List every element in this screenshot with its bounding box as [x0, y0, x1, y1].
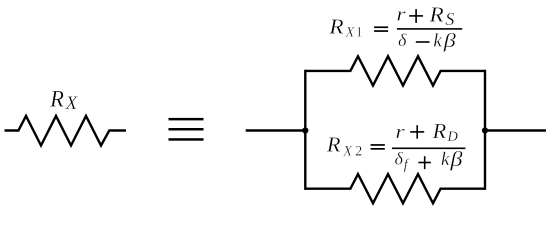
wire: left lead into node A [246, 129, 306, 131]
svg-text:δ: δ [395, 149, 404, 169]
svg-text:X: X [345, 25, 356, 41]
svg-text:r: r [395, 122, 405, 143]
svg-text:X: X [65, 93, 79, 114]
resistor RX [5, 116, 127, 146]
svg-text:β: β [443, 30, 457, 52]
svg-text:R: R [428, 2, 443, 26]
wire: left vertical branch between node A and parallel branches [304, 71, 306, 189]
svg-text:S: S [445, 9, 454, 29]
svg-text:R: R [432, 119, 447, 143]
value label RX1 = (r + RS)/(delta - k beta) [328, 2, 462, 52]
svg-text:R: R [326, 133, 341, 157]
svg-text:D: D [446, 129, 458, 145]
svg-text:R: R [328, 15, 343, 39]
svg-text:k: k [441, 149, 450, 170]
svg-text:δ: δ [398, 30, 407, 50]
svg-text:k: k [433, 30, 442, 51]
resistor RX2 (bottom branch, with wire segments) [305, 174, 485, 203]
svg-text:2: 2 [355, 143, 362, 159]
svg-text:1: 1 [356, 25, 363, 41]
value label RX2 = (r + RD)/(delta_f + k beta) [326, 119, 466, 173]
svg-text:X: X [342, 144, 353, 160]
wire: right lead out of node B [485, 129, 546, 131]
equivalence symbol [169, 118, 204, 141]
svg-text:r: r [396, 5, 406, 26]
value label RX [49, 86, 78, 114]
svg-text:β: β [449, 147, 463, 171]
svg-text:R: R [49, 86, 64, 111]
node B (right junction dot) [482, 127, 488, 133]
node A (left junction dot) [302, 127, 308, 133]
wire: right vertical branch between parallel branches and node B [484, 71, 486, 189]
resistor RX1 (top branch, with wire segments) [305, 56, 485, 85]
